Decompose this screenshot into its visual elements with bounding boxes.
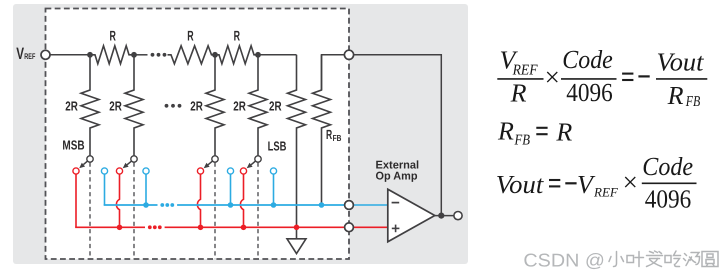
op-amp inverting pin mark bbox=[392, 202, 400, 204]
VREF terminal bbox=[41, 50, 50, 59]
resistor 2R-3 bbox=[206, 55, 224, 156]
svg-text:R: R bbox=[110, 28, 116, 44]
svg-text:4096: 4096 bbox=[566, 78, 613, 107]
equation 1 fraction Code/4096 bbox=[561, 45, 617, 107]
equation 1 minus sign bbox=[638, 75, 649, 77]
svg-text:R: R bbox=[326, 127, 333, 142]
cyan bus right segment bbox=[177, 204, 349, 206]
wire bit2 cyan drop bbox=[145, 174, 147, 205]
switch SW1 cyan throw terminal bbox=[101, 168, 107, 174]
cyan junction dot at RFB bbox=[319, 202, 325, 208]
wire IOUT to op-amp inverting input bbox=[349, 204, 388, 206]
svg-text:V: V bbox=[16, 45, 24, 63]
RFB terminal bbox=[344, 50, 353, 59]
gray schematic panel bbox=[13, 4, 468, 264]
switch SW4 pole terminal bbox=[255, 156, 261, 162]
label VREF bbox=[16, 45, 35, 63]
wire node D to terminator bbox=[258, 54, 297, 56]
wire bit3 cyan drop bbox=[230, 174, 232, 205]
svg-text:FB: FB bbox=[514, 133, 530, 149]
wire feedback net bbox=[322, 55, 442, 216]
svg-text:R: R bbox=[187, 28, 193, 44]
VOUT terminal bbox=[454, 212, 462, 220]
rail junction dot 2 bbox=[131, 52, 137, 58]
wire AGND to op-amp non-inverting input bbox=[349, 226, 388, 228]
internal dashed switch-cell line x=215 bbox=[214, 163, 216, 260]
svg-text:FB: FB bbox=[333, 133, 342, 143]
svg-text:R: R bbox=[234, 28, 240, 44]
switch SW2 arrow bbox=[123, 161, 132, 168]
red bus junction dot bbox=[117, 225, 123, 231]
watermark hanzi ye bbox=[628, 253, 645, 268]
red bus junction dot bbox=[241, 225, 247, 231]
rail junction dot 4 bbox=[255, 52, 261, 58]
resistor R1 bbox=[90, 46, 134, 64]
wire op-amp output bbox=[435, 215, 454, 217]
switch SW2 cyan throw terminal bbox=[143, 168, 149, 174]
cyan bus junction dot bbox=[143, 202, 149, 208]
red bus ellipsis dots bbox=[148, 225, 162, 229]
resistor R3 bbox=[215, 46, 258, 64]
wire MSB cyan drop bbox=[104, 174, 106, 205]
resistor 2R-2 bbox=[125, 55, 143, 156]
svg-text:Code: Code bbox=[562, 45, 613, 74]
svg-text:Code: Code bbox=[642, 152, 693, 181]
watermark hanzi ai bbox=[648, 252, 664, 268]
wire terminator to ground bbox=[296, 227, 298, 239]
watermark hanzi chi bbox=[666, 252, 682, 268]
red junction dot at terminator bbox=[294, 225, 300, 231]
svg-text:CSDN @: CSDN @ bbox=[523, 249, 605, 270]
svg-text:Vout: Vout bbox=[657, 47, 705, 76]
red bus left segment bbox=[76, 226, 145, 229]
svg-text:REF: REF bbox=[24, 52, 35, 61]
svg-text:MSB: MSB bbox=[62, 138, 84, 153]
equation 3 Vout = -VREF x Code/4096 bbox=[496, 152, 697, 213]
watermark hanzi tang bbox=[685, 254, 701, 267]
switch SW1 pole terminal bbox=[87, 156, 93, 162]
rail ellipsis dots bbox=[151, 53, 167, 57]
resistor 2R-1 bbox=[81, 55, 99, 156]
svg-text:Vout: Vout bbox=[496, 170, 544, 199]
switch SW4 cyan throw terminal bbox=[270, 168, 276, 174]
equation 1 fraction Vout/RFB bbox=[656, 47, 707, 110]
equation 1 equals sign bbox=[622, 74, 633, 80]
svg-text:2R: 2R bbox=[190, 99, 203, 114]
svg-text:2R: 2R bbox=[233, 99, 246, 114]
red bus junction dot bbox=[198, 225, 204, 231]
svg-text:4096: 4096 bbox=[645, 184, 692, 213]
svg-text:2R: 2R bbox=[65, 99, 78, 114]
label RFB bbox=[326, 127, 341, 143]
switch SW4 red throw terminal bbox=[240, 168, 246, 174]
svg-text:REF: REF bbox=[512, 63, 539, 79]
op-amp non-inverting pin mark bbox=[392, 225, 400, 233]
switch SW1 arrow bbox=[79, 161, 87, 168]
resistor 2R terminator bbox=[288, 55, 306, 228]
output junction dot bbox=[438, 213, 444, 219]
switch SW3 red throw terminal bbox=[197, 168, 203, 174]
wire LSB cyan drop bbox=[273, 174, 275, 205]
svg-text:R: R bbox=[497, 117, 514, 146]
wire bit2 red drop with hop bbox=[116, 174, 119, 225]
cyan bus junction dot bbox=[271, 202, 277, 208]
2R row ellipsis dots bbox=[165, 104, 182, 108]
AGND terminal bbox=[345, 223, 354, 232]
svg-text:R: R bbox=[510, 78, 527, 107]
red bus right segment bbox=[165, 226, 349, 228]
rail junction dot 3 bbox=[212, 52, 218, 58]
wire LSB red drop with hop bbox=[240, 174, 243, 225]
watermark hanzi yuan bbox=[703, 253, 719, 268]
svg-text:LSB: LSB bbox=[268, 138, 287, 153]
equation 2 RFB = R bbox=[497, 117, 572, 149]
resistor 2R-4 bbox=[249, 55, 267, 156]
ground bbox=[287, 239, 306, 254]
cyan bus left segment bbox=[105, 203, 158, 206]
internal dashed switch-cell line x=90 bbox=[89, 163, 91, 260]
internal dashed switch-cell line x=134 bbox=[133, 163, 135, 260]
switch SW2 red throw terminal bbox=[116, 168, 122, 174]
internal dashed switch-cell line x=258 bbox=[257, 163, 259, 260]
IOUT terminal bbox=[345, 201, 354, 210]
svg-text:2R: 2R bbox=[109, 99, 122, 114]
switch SW1 red throw terminal bbox=[73, 168, 79, 174]
dashed DAC boundary box bbox=[46, 9, 350, 260]
switch SW3 cyan throw terminal bbox=[227, 168, 233, 174]
resistor R2 bbox=[168, 46, 216, 64]
wire node B stub bbox=[134, 54, 148, 56]
switch SW4 arrow bbox=[247, 161, 256, 168]
resistor RFB bbox=[313, 55, 331, 205]
equation 1 fraction VREF/R bbox=[497, 45, 543, 107]
cyan bus ellipsis dots bbox=[160, 203, 174, 207]
svg-text:×: × bbox=[623, 167, 638, 197]
switch SW3 arrow bbox=[204, 161, 213, 168]
label External Op Amp bbox=[376, 159, 420, 182]
svg-text:REF: REF bbox=[593, 184, 619, 199]
cyan bus junction dot bbox=[228, 202, 234, 208]
wire VREF to node A bbox=[46, 54, 91, 56]
svg-text:Op Amp: Op Amp bbox=[376, 170, 418, 182]
switch SW2 pole terminal bbox=[131, 156, 137, 162]
switch SW3 pole terminal bbox=[212, 156, 218, 162]
rail junction dot 1 bbox=[87, 52, 93, 58]
svg-text:R: R bbox=[667, 81, 684, 110]
wire bit3 red drop with hop bbox=[197, 174, 200, 225]
svg-text:2R: 2R bbox=[269, 99, 282, 114]
svg-text:FB: FB bbox=[685, 94, 700, 110]
svg-text:R: R bbox=[555, 118, 572, 147]
wire MSB red drop bbox=[75, 174, 77, 227]
watermark hanzi xiao bbox=[610, 253, 625, 268]
op-amp U1 bbox=[388, 189, 435, 242]
svg-text:×: × bbox=[545, 62, 560, 92]
